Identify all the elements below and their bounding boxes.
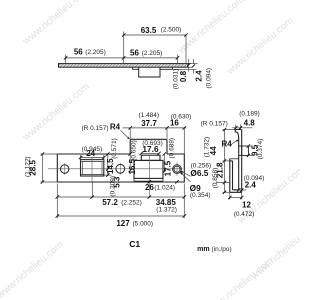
svg-text:C1: C1 — [129, 239, 140, 249]
svg-text:(0.689): (0.689) — [169, 138, 176, 159]
svg-text:(0.189): (0.189) — [239, 110, 260, 117]
svg-text:26: 26 — [145, 183, 154, 192]
svg-text:56: 56 — [130, 49, 139, 58]
svg-text:(5.000): (5.000) — [132, 220, 153, 227]
16.5 — [129, 154, 131, 171]
svg-text:(2.205): (2.205) — [142, 50, 163, 57]
channel far top edge — [230, 158, 239, 160]
svg-text:R4: R4 — [110, 123, 121, 132]
clip tab below bar — [139, 67, 160, 77]
57.2 / 34.85 — [57, 196, 184, 198]
svg-text:R4: R4 — [221, 140, 232, 149]
svg-text:127: 127 — [116, 219, 130, 228]
svg-text:(0.571): (0.571) — [111, 138, 118, 159]
4.8 dim — [232, 127, 253, 129]
svg-text:(1.372): (1.372) — [156, 206, 177, 213]
svg-text:0.8: 0.8 — [179, 70, 188, 82]
web — [239, 130, 242, 193]
svg-text:(0.094): (0.094) — [205, 68, 212, 89]
hatched bar body — [59, 64, 189, 68]
svg-text:16: 16 — [170, 119, 179, 128]
2.4 dim — [236, 189, 247, 191]
svg-text:56: 56 — [74, 48, 83, 57]
leaders — [180, 171, 190, 176]
plate outline — [57, 139, 184, 182]
12 dim — [230, 197, 242, 199]
svg-text:(0.209): (0.209) — [110, 176, 117, 197]
14.5 / 5.3 — [107, 154, 109, 175]
side view: channel cross-section — [230, 130, 249, 193]
svg-text:24: 24 — [86, 149, 95, 158]
svg-text:(R 0.157): (R 0.157) — [201, 120, 228, 127]
top flange — [235, 130, 241, 139]
svg-text:(1.484): (1.484) — [138, 112, 159, 119]
small slot under hump — [141, 155, 160, 160]
svg-text:Ø6.5: Ø6.5 — [190, 168, 208, 178]
R4 leader front — [121, 130, 130, 139]
svg-text:mm: mm — [197, 246, 209, 253]
svg-text:(R 0.157): (R 0.157) — [81, 125, 108, 132]
svg-text:(0.858): (0.858) — [212, 168, 219, 189]
svg-text:57.2: 57.2 — [102, 198, 118, 207]
center lines of holes and slots — [48, 155, 183, 198]
svg-text:(2.500): (2.500) — [161, 27, 182, 34]
detent — [242, 146, 249, 155]
inner bottom and bottom — [230, 190, 242, 193]
9.5 ext — [248, 145, 252, 147]
svg-text:14.5: 14.5 — [106, 158, 115, 174]
center raised block — [134, 160, 163, 178]
17.5 — [163, 154, 165, 172]
front view: plate outline with raised hump — [57, 139, 184, 182]
svg-text:(1.122): (1.122) — [25, 156, 32, 177]
svg-text:(0.650): (0.650) — [130, 140, 137, 161]
R4 leader — [231, 140, 238, 145]
svg-text:(0.354): (0.354) — [190, 192, 211, 199]
24 dim — [81, 157, 104, 159]
thickness extension lines right — [188, 63, 197, 65]
svg-text:(1.732): (1.732) — [203, 137, 210, 158]
44 / 21.8 dims — [224, 130, 226, 193]
svg-text:(1.024): (1.024) — [154, 184, 175, 191]
svg-text:37.7: 37.7 — [141, 119, 157, 128]
svg-text:(0.374): (0.374) — [257, 139, 264, 160]
svg-text:17.6: 17.6 — [142, 144, 159, 154]
28.5 left — [42, 154, 44, 182]
svg-text:2.4: 2.4 — [245, 181, 257, 190]
svg-text:2.4: 2.4 — [195, 70, 204, 82]
svg-text:17.5: 17.5 — [164, 160, 173, 176]
lip — [230, 159, 233, 193]
raised block (24 mm slot) — [81, 160, 104, 177]
dimension lines and extension lines, top view (63.5 / 56 / 56 / 0.8 / 2.4) — [66, 32, 198, 74]
arrowheads leaders — [127, 137, 183, 175]
svg-text:12: 12 — [242, 201, 251, 210]
svg-text:4.8: 4.8 — [244, 119, 256, 128]
svg-text:(0.472): (0.472) — [234, 211, 255, 218]
svg-text:(2.205): (2.205) — [85, 49, 106, 56]
svg-text:(2.252): (2.252) — [121, 199, 142, 206]
17.6 — [141, 152, 159, 154]
front view texts — [25, 112, 232, 253]
dimension and extension lines, front view — [41, 128, 191, 218]
37.7 / 16 dims — [123, 127, 187, 129]
svg-text:(in./po): (in./po) — [211, 246, 231, 253]
svg-text:63.5: 63.5 — [141, 26, 157, 35]
screw holes (left, center 9mm, right 6.5/9mm) — [60, 164, 181, 173]
127 — [57, 215, 184, 217]
top view: slide side profile — [59, 64, 189, 77]
